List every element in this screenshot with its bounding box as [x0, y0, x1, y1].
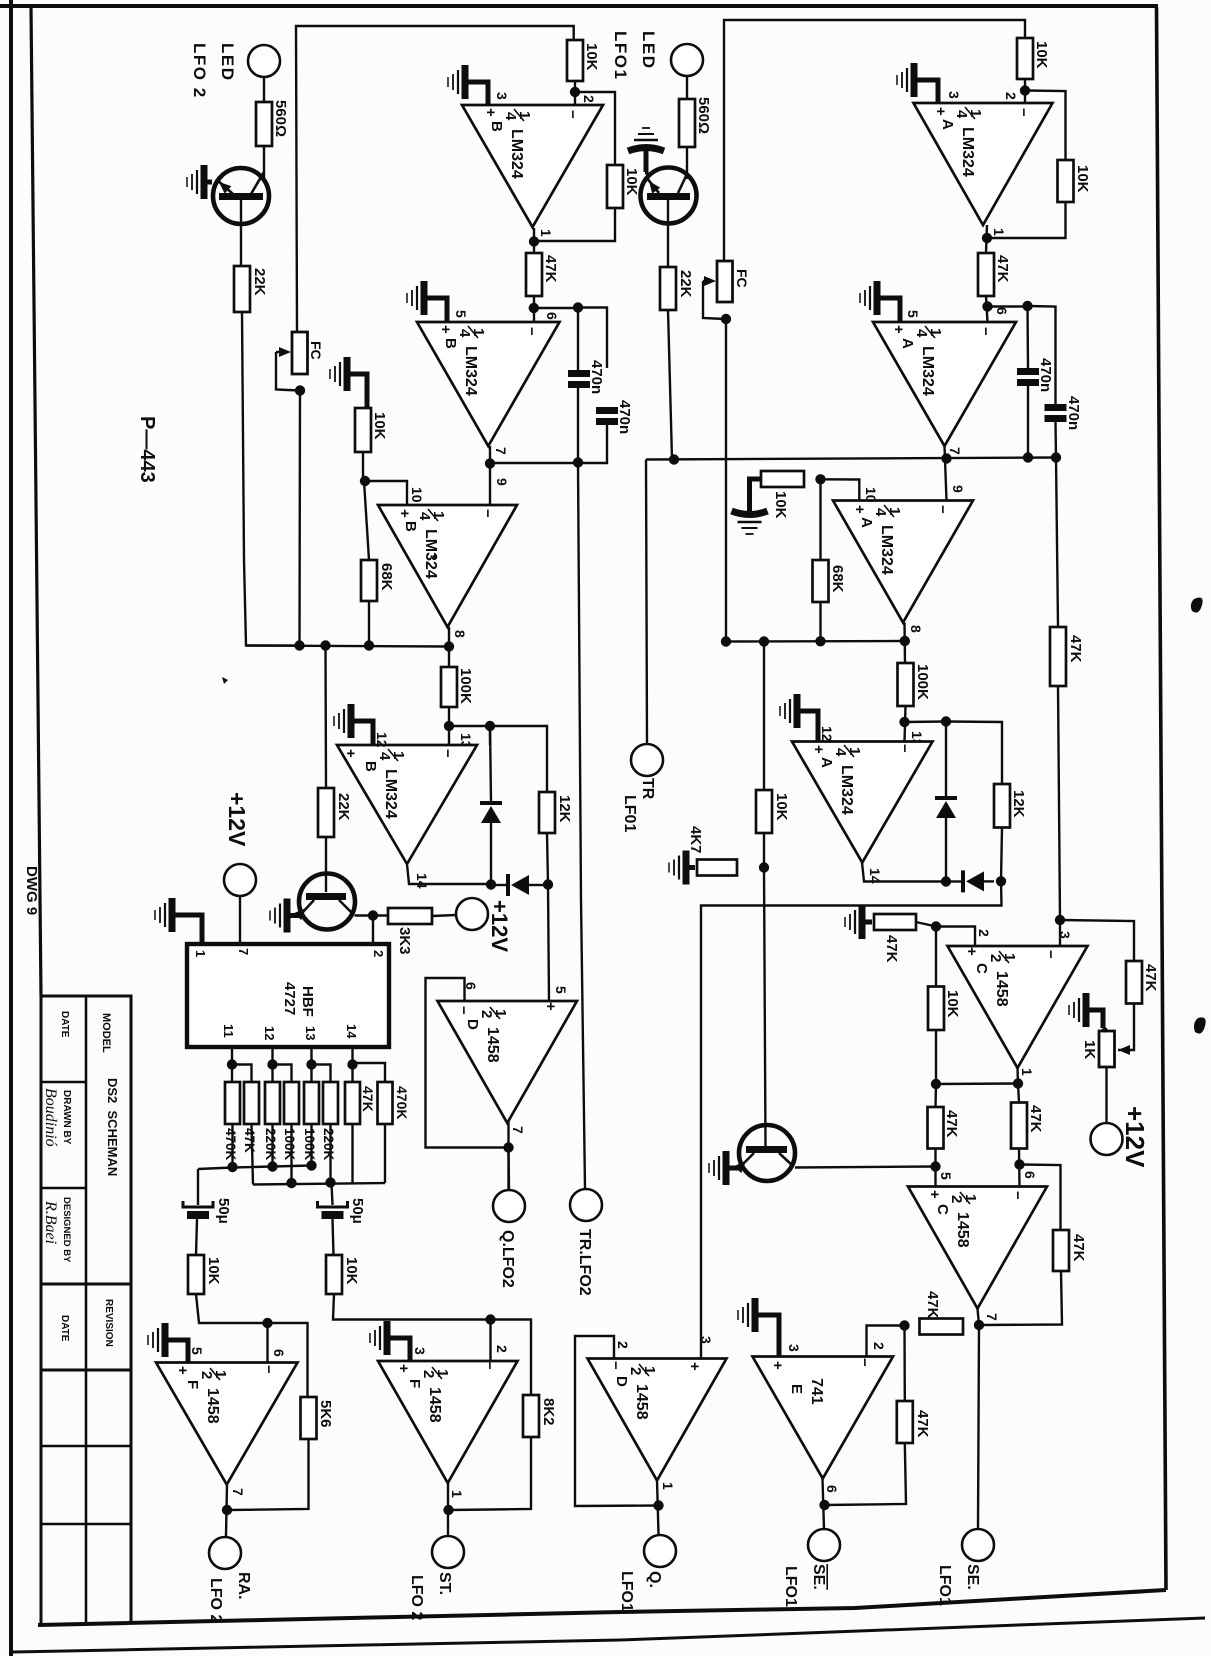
svg-text:P—443: P—443: [136, 416, 158, 483]
wire R4 to bus2: [290, 1124, 292, 1184]
svg-text:6: 6: [544, 312, 560, 320]
svg-text:+: +: [769, 1361, 786, 1370]
wire node to 8K2 corner: [491, 1320, 532, 1396]
svg-text:Q.LFO2: Q.LFO2: [499, 1230, 516, 1288]
svg-text:6: 6: [994, 307, 1010, 315]
ground at HBF pin1: [155, 898, 202, 944]
svg-text:7: 7: [236, 948, 251, 955]
junction dot C1 fb node: [931, 1079, 941, 1089]
svg-text:4: 4: [456, 329, 473, 338]
wire B1 apex to output node: [533, 228, 535, 253]
svg-text:−: −: [607, 1361, 624, 1370]
resistor 47K interstage left: [526, 253, 542, 296]
wire 10K fb to output node: [935, 1030, 937, 1084]
junction dot C1 pin3 node: [1055, 915, 1065, 925]
svg-text:47K: 47K: [924, 1291, 941, 1319]
wire 12K to diode node: [547, 833, 549, 1001]
wire 4K7 node to Q3 base: [764, 868, 766, 1147]
junction dot Q2 collector node: [368, 910, 378, 920]
svg-text:2: 2: [976, 929, 992, 937]
resistor 68K right: [813, 560, 829, 602]
Q2 collector lead: [339, 900, 353, 914]
svg-text:1458: 1458: [426, 1387, 443, 1423]
svg-text:SE.: SE.: [810, 1564, 827, 1590]
wire R6 to bus2: [329, 1124, 331, 1183]
svg-text:−: −: [479, 509, 496, 518]
bus2 wire: [253, 1183, 385, 1185]
svg-text:7: 7: [510, 1126, 526, 1134]
diode D1 left vertical: [480, 801, 502, 805]
svg-text:2: 2: [987, 954, 1004, 962]
svg-text:Q.: Q.: [646, 1571, 663, 1588]
junction dot 68K bus: [364, 640, 374, 650]
svg-text:4: 4: [832, 748, 849, 757]
ground at F1 pin5: [148, 1323, 188, 1363]
wire top loop from pin2 node to FC pot: [296, 26, 574, 332]
Q1 emitter ground: [187, 165, 212, 199]
svg-text:RA.: RA.: [235, 1572, 252, 1600]
wire TR LFO1 drop: [646, 460, 647, 744]
wire 50u left to 10K: [196, 1219, 197, 1255]
svg-text:12: 12: [819, 726, 835, 742]
svg-text:68K: 68K: [378, 563, 395, 591]
junction dot R4 bus2: [286, 1178, 296, 1188]
wire 22K down to bus corner: [242, 312, 300, 646]
junction dot diode' anode node: [941, 876, 951, 886]
resistor 10K to pin10: [355, 408, 371, 452]
svg-text:DS2 SCHEMAN: DS2 SCHEMAN: [105, 1078, 120, 1176]
title block row line under DATE: [41, 1081, 86, 1084]
wire 1K pot to +12V terminal: [1105, 1067, 1107, 1122]
svg-text:LM324: LM324: [959, 127, 976, 177]
resistor 47K to C1 pin2: [874, 914, 916, 930]
wire 22K right down to cap wire: [668, 310, 674, 459]
wire pin11 jog to R2: [232, 1065, 252, 1083]
title block signature drawn by: [42, 1088, 59, 1147]
wire B2 apex to pin9 node: [489, 446, 491, 505]
svg-text:LFO1: LFO1: [618, 1571, 635, 1612]
resistor 10K top right: [1017, 38, 1033, 79]
speck artifact left of bus: [222, 677, 228, 684]
wire cap2' junction down to 47K: [1056, 458, 1058, 628]
junction dot R5 bus1: [306, 1160, 316, 1170]
wire E apex to SEbar terminal: [823, 1479, 825, 1530]
wire Q1 base to 22K: [240, 200, 242, 266]
junction dot cap bottom node: [573, 457, 583, 467]
svg-text:12K: 12K: [1010, 790, 1027, 818]
resistor 10K feedback A1: [1058, 160, 1074, 202]
svg-text:5: 5: [453, 310, 469, 318]
title block column divider: [85, 996, 88, 1623]
wire 47K fb to C2 output: [979, 1271, 1062, 1325]
wire junction to 68K right: [819, 479, 821, 560]
wire jog to pin 10 A3: [821, 479, 860, 500]
wire LED1 to 560ohm: [686, 76, 688, 99]
svg-text:2: 2: [581, 95, 597, 103]
svg-text:LED: LED: [639, 31, 658, 70]
wire 10K to 4K7 node: [763, 833, 765, 868]
svg-text:4: 4: [913, 329, 930, 338]
title block outer box: [41, 996, 131, 1624]
svg-text:B: B: [488, 121, 505, 132]
diode D2 left horizontal: [506, 874, 510, 896]
speck artifact right margin 2: [1194, 1017, 1206, 1033]
junction dot C2 pin5 node: [930, 1161, 940, 1171]
junction dot D1 output: [503, 1142, 513, 1152]
wire 100K to pin13 node right: [905, 706, 906, 742]
page border bottom edge: [13, 1618, 1205, 1652]
wire junction to 68K: [364, 481, 369, 560]
page border left edge: [9, 0, 13, 1656]
svg-text:10K: 10K: [583, 43, 600, 71]
wire 47K to pin5 node: [934, 1149, 936, 1187]
potentiometer 1K: [1099, 1031, 1115, 1067]
resistor R7 47K bank: [345, 1082, 360, 1124]
Q3' base bar: [746, 1146, 787, 1153]
wire 68K to bus: [368, 601, 370, 646]
junction dot FC' line bus: [721, 636, 731, 646]
junction dot cap1' bottom node: [1023, 452, 1033, 462]
svg-text:LED: LED: [218, 43, 237, 82]
wire pin6 stub F1: [266, 1323, 268, 1363]
svg-text:2: 2: [615, 1341, 631, 1349]
wire F2 apex to ST terminal: [447, 1483, 449, 1536]
op-amp U1A LM324 A (pins 3,2,1): [914, 103, 1053, 225]
svg-text:10K: 10K: [773, 793, 790, 821]
svg-text:LM324: LM324: [422, 529, 439, 579]
resistor 560ohm right: [679, 99, 695, 147]
svg-text:5: 5: [938, 1172, 954, 1180]
resistor 560ohm left: [256, 102, 272, 146]
junction dot pin13 node right: [899, 717, 909, 727]
svg-text:+12V: +12V: [487, 900, 512, 952]
ground at B4 pin12: [334, 704, 373, 745]
svg-text:2: 2: [871, 1342, 887, 1350]
wire 47K fb E to output: [825, 1443, 906, 1505]
svg-text:+: +: [851, 505, 868, 514]
junction dot pin2 node: [570, 87, 580, 97]
junction dot FC line bus: [294, 640, 304, 650]
svg-text:−: −: [260, 1365, 277, 1374]
wire 8K2 to F2 output: [449, 1437, 531, 1510]
op-amp U1B3 LM324 B (pins 10,9,8): [378, 505, 517, 627]
svg-text:−: −: [523, 327, 540, 336]
svg-text:1: 1: [538, 229, 554, 237]
wire pin13 node to diode column: [449, 726, 490, 745]
junction dot R3 bus1: [267, 1161, 277, 1171]
wire 10K to F2 input node: [333, 1294, 491, 1320]
svg-text:−: −: [439, 749, 456, 758]
svg-text:DESIGNED BY: DESIGNED BY: [61, 1197, 72, 1263]
svg-text:1: 1: [991, 228, 1007, 236]
terminal SE LFO1: [962, 1529, 994, 1561]
wire cap2 bottom lead: [578, 425, 607, 463]
svg-text:5: 5: [189, 1347, 205, 1355]
svg-text:7: 7: [230, 1488, 246, 1496]
junction dot C2 output: [974, 1320, 984, 1330]
wire 47K to wiper arrow: [1118, 1004, 1134, 1051]
wire 68K to right bus: [819, 602, 821, 642]
svg-text:6: 6: [1022, 1171, 1038, 1179]
wire pin3 node to 1K branch: [1060, 920, 1134, 961]
wire R7 to bus2: [351, 1124, 353, 1184]
wire feedback 10K to output node: [534, 208, 615, 241]
svg-text:12: 12: [374, 732, 390, 748]
junction dot cap2' bottom node: [1051, 452, 1061, 462]
resistor R3 220K bank: [265, 1082, 280, 1124]
transistor Q1: [213, 168, 269, 224]
junction dot 12K' bottom node: [996, 876, 1006, 886]
title block row line full 3: [41, 1445, 131, 1448]
resistor 10K horizontal A3: [761, 471, 804, 487]
resistor 3K3: [388, 908, 432, 924]
ground at E pin3: [738, 1298, 779, 1357]
svg-text:LF01: LF01: [621, 795, 638, 832]
junction dot diode column top: [485, 721, 495, 731]
capacitor 470n left first: [568, 370, 590, 377]
junction dot pin13 node: [444, 721, 454, 731]
op-amp U1A3 LM324 A (pins 10,9,8): [833, 501, 973, 623]
junction dot B3 output: [444, 641, 454, 651]
svg-text:−: −: [856, 1358, 873, 1367]
wire A3 apex to bus: [903, 623, 906, 664]
speck artifact near B3 output: [433, 555, 438, 560]
svg-text:TR.LFO2: TR.LFO2: [576, 1229, 593, 1296]
svg-text:47K: 47K: [883, 935, 900, 963]
label SEbar LFO1: [810, 1564, 827, 1590]
svg-text:LM324: LM324: [878, 525, 895, 575]
wire diode' bottom lead: [945, 818, 947, 882]
svg-text:10K: 10K: [623, 168, 640, 196]
junction dot F1 pin6 node: [262, 1318, 272, 1328]
svg-text:4727: 4727: [281, 982, 298, 1015]
wire cap1' top lead: [1026, 306, 1029, 368]
junction dot cap1' top node: [1022, 301, 1032, 311]
speck artifact right margin 1: [1191, 597, 1203, 612]
drawing frame top: [0, 4, 1158, 8]
svg-text:14: 14: [344, 1024, 359, 1039]
resistor R5 100K bank: [304, 1082, 319, 1124]
wire cap node to cap2 branch: [578, 308, 607, 369]
svg-text:LFO1: LFO1: [611, 31, 630, 80]
svg-text:LM324: LM324: [838, 765, 855, 815]
wire cap junction bus right: [646, 458, 1056, 460]
svg-text:1458: 1458: [484, 1027, 501, 1063]
svg-text:47K: 47K: [1070, 1234, 1087, 1262]
svg-text:3: 3: [412, 1347, 428, 1355]
svg-text:LFO 2: LFO 2: [408, 1575, 425, 1620]
svg-text:47K: 47K: [242, 1128, 257, 1153]
wire diode column to 12K corner: [490, 726, 547, 792]
wire Q LFO2 line: [507, 1148, 510, 1190]
svg-text:50μ: 50μ: [215, 1198, 232, 1224]
wire pin2 stub F2: [489, 1320, 491, 1361]
wire pin2 node to feedback 10K right: [1025, 91, 1066, 161]
wire node down to HBF pin2: [372, 916, 374, 945]
junction dot C1 output: [1013, 1078, 1023, 1088]
svg-text:7: 7: [493, 447, 509, 455]
op-amp U3F 1458 F (pins 5,6,7): [156, 1363, 298, 1485]
wire D1 pin6 feedback loop: [426, 978, 509, 1148]
svg-text:10K: 10K: [343, 1257, 360, 1285]
wire HBF pin14 stub: [351, 1047, 353, 1082]
wire R8 to bus2: [384, 1124, 386, 1183]
resistor 68K left: [361, 560, 377, 601]
svg-text:3: 3: [698, 1336, 714, 1344]
wire pin6 node to cap node: [534, 307, 578, 309]
svg-text:7: 7: [947, 447, 963, 455]
junction dot diode column right top: [941, 716, 951, 726]
terminal TR LFO1: [631, 744, 663, 776]
svg-text:1: 1: [449, 1490, 465, 1498]
svg-text:2: 2: [478, 1010, 495, 1018]
Q2 emitter lead with arrow: [302, 900, 314, 913]
wire 10K to F1 input node: [196, 1294, 268, 1323]
ground above 1K pot: [1069, 993, 1103, 1028]
svg-text:14: 14: [414, 873, 430, 889]
wire TR LFO2 long line: [578, 463, 585, 1188]
capacitor 50u right: [318, 1201, 348, 1207]
svg-text:8K2: 8K2: [540, 1398, 557, 1426]
wire 50u right to 10K: [333, 1219, 334, 1255]
junction dot C2 pin6 node: [1014, 1159, 1024, 1169]
svg-text:SE.: SE.: [964, 1564, 981, 1590]
svg-text:+: +: [932, 107, 949, 116]
wire diode D2' leads: [951, 880, 961, 882]
wire 5K6 to F1 output: [227, 1439, 309, 1510]
Q1 emitter lead with arrow: [216, 179, 233, 194]
Q1' emitter lead with arrow: [646, 177, 659, 193]
drawing frame left: [31, 7, 41, 996]
wire 10K to pin2 node right: [1024, 79, 1026, 103]
wire diode D2 leads: [496, 884, 506, 886]
op-amp U1B4 LM324 B (pins 12,13,14): [337, 745, 477, 864]
junction dot A1 output: [982, 233, 992, 243]
Q1 collector inner lead: [251, 172, 264, 194]
capacitor 470n right first: [1017, 368, 1039, 375]
Q3' collector lead: [779, 1153, 793, 1166]
svg-text:B: B: [442, 338, 459, 349]
wire pin13 jog to R6: [312, 1065, 331, 1083]
wire diode' top lead: [945, 722, 947, 797]
op-amp U1B LM324 B (pins 3,2,1): [462, 105, 603, 227]
svg-text:A: A: [818, 757, 835, 768]
svg-text:F: F: [184, 1380, 201, 1389]
svg-text:10K: 10K: [205, 1257, 222, 1285]
junction dot B1 output: [529, 236, 539, 246]
Q2 emitter ground: [270, 899, 299, 933]
svg-text:F: F: [406, 1379, 423, 1388]
wire R2 to bus2: [252, 1124, 254, 1185]
Q1' collector inner lead: [678, 174, 687, 193]
svg-text:47K: 47K: [360, 1086, 376, 1112]
svg-text:DWG 9: DWG 9: [23, 866, 40, 915]
svg-text:3K3: 3K3: [396, 927, 413, 955]
FC' wiper arrow and loop: [703, 281, 725, 319]
svg-text:−: −: [1042, 950, 1059, 959]
junction dot pin12: [267, 1059, 277, 1069]
svg-text:2: 2: [948, 1195, 965, 1203]
svg-text:MODEL: MODEL: [100, 1013, 112, 1053]
wire 3K3 to +12V terminal: [432, 915, 456, 916]
svg-text:D: D: [613, 1376, 630, 1387]
resistor 12K left: [539, 792, 555, 833]
svg-text:47K: 47K: [1027, 1105, 1044, 1133]
svg-text:47K: 47K: [914, 1410, 931, 1438]
wire fb node down to 47K pin5: [934, 1084, 937, 1107]
wire C2 output to SE terminal: [978, 1325, 979, 1528]
wire 47K to pin6 node right: [986, 296, 988, 322]
op-amp U6E 741 (pins 3,2,6): [753, 1357, 894, 1479]
svg-text:1458: 1458: [633, 1384, 650, 1420]
svg-text:12K: 12K: [556, 795, 573, 823]
svg-text:470n: 470n: [588, 360, 605, 394]
svg-text:12: 12: [262, 1026, 277, 1040]
resistor 22K to Q2: [318, 788, 334, 837]
wire pin14 jog to R8: [353, 1063, 386, 1082]
wire HBF pin13 stub: [310, 1047, 312, 1082]
right bus wire: [726, 640, 905, 643]
svg-text:470n: 470n: [1065, 396, 1082, 430]
svg-text:REVISION: REVISION: [103, 1299, 114, 1347]
wire pin2 node to C1 pin2 stub: [936, 927, 975, 947]
svg-text:−: −: [934, 505, 951, 514]
wire pin3 stub C1: [1059, 920, 1061, 946]
svg-text:LFO1: LFO1: [782, 1566, 799, 1607]
resistor 47K between E and C2: [920, 1319, 964, 1335]
op-amp U5C2 1458 C (pins 5,6,7): [908, 1187, 1047, 1309]
bus wire left half: [246, 646, 449, 647]
terminal +12V right: [1091, 1123, 1123, 1155]
drawing frame right: [1157, 7, 1167, 1590]
svg-text:−: −: [977, 327, 994, 336]
junction dot 12K bottom node: [543, 879, 553, 889]
capacitor 470n right second: [1045, 404, 1067, 411]
wire FC bottom to bus: [298, 391, 301, 646]
ground below 10K A3: [732, 509, 768, 534]
wire 560ohm to Q1 collector: [263, 146, 265, 179]
capacitor 470n left second: [596, 407, 618, 414]
terminal SEbar LFO1: [808, 1529, 840, 1561]
resistor 10K lfo2 right: [326, 1255, 342, 1294]
wire E pin2 node to stub: [867, 1326, 905, 1357]
junction dot Q3 column bus: [759, 636, 769, 646]
terminal +12V mid: [456, 898, 488, 930]
junction dot F2 pin2 node: [485, 1314, 495, 1324]
terminal ST LFO2: [432, 1536, 464, 1568]
junction dot E output: [819, 1500, 829, 1510]
FC wiper arrow and loop: [276, 352, 299, 391]
wire node to D2 pin3 long route: [701, 881, 1002, 1358]
svg-text:22K: 22K: [251, 268, 268, 296]
junction dot FC' bottom: [721, 314, 731, 324]
svg-text:−: −: [455, 1006, 472, 1015]
junction dot pin6 node: [529, 303, 539, 313]
svg-text:−: −: [1009, 1191, 1026, 1200]
IC U2 HBF 4727 box: [187, 944, 389, 1047]
svg-text:470K: 470K: [394, 1086, 410, 1119]
resistor 10K lfo2 left: [188, 1255, 204, 1294]
Q3' emitter ground: [709, 1151, 739, 1185]
svg-text:FC: FC: [308, 341, 324, 360]
wire B4 apex output: [407, 864, 491, 884]
wire pin13 node to diode column right: [905, 720, 947, 723]
junction dot R1 bus1: [227, 1162, 237, 1172]
resistor 4K7: [697, 860, 737, 876]
svg-text:22K: 22K: [677, 270, 694, 298]
svg-text:2: 2: [420, 1370, 437, 1378]
wire LED to 560ohm: [263, 77, 265, 102]
